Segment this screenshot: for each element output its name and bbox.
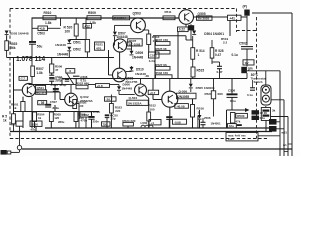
- svg-text:C8 08: C8 08: [260, 111, 268, 115]
- svg-text:R524: R524: [205, 92, 212, 96]
- svg-text:47: 47: [55, 68, 59, 72]
- svg-text:0.22: 0.22: [179, 28, 185, 32]
- svg-text:56k: 56k: [10, 46, 16, 50]
- svg-text:100: 100: [65, 30, 71, 34]
- svg-text:-0.08: -0.08: [174, 120, 181, 124]
- svg-text:1k: 1k: [3, 118, 7, 122]
- svg-text:2N 5322A: 2N 5322A: [128, 101, 142, 105]
- svg-text:D504 1N4001: D504 1N4001: [204, 32, 224, 36]
- svg-text:42u: 42u: [229, 124, 234, 128]
- svg-text:3k: 3k: [272, 109, 276, 113]
- svg-text:750: 750: [103, 122, 108, 126]
- svg-text:1k: 1k: [38, 116, 42, 120]
- svg-text:1N4448: 1N4448: [122, 87, 133, 91]
- svg-text:D502: D502: [73, 48, 81, 52]
- svg-text:47k: 47k: [31, 128, 36, 132]
- svg-text:xxxx: xxxx: [228, 138, 234, 141]
- svg-text:100: 100: [79, 116, 84, 120]
- svg-text:Switch: Switch: [254, 80, 263, 84]
- svg-text:D505 1N4001: D505 1N4001: [196, 86, 215, 90]
- svg-text:2.2: 2.2: [223, 41, 228, 45]
- svg-text:C507: C507: [50, 100, 58, 104]
- svg-text:C505: C505: [51, 83, 59, 87]
- svg-text:(P): (P): [243, 5, 248, 9]
- svg-text:0.1u: 0.1u: [230, 99, 236, 103]
- svg-text:880u: 880u: [53, 106, 60, 110]
- svg-text:C510: C510: [93, 110, 100, 114]
- svg-text:BC-1068: BC-1068: [129, 43, 141, 47]
- svg-text:R515: R515: [197, 69, 205, 73]
- svg-text:2506: 2506: [204, 116, 211, 120]
- svg-text:- 9: - 9: [68, 69, 72, 73]
- svg-text:R510: R510: [44, 11, 52, 15]
- svg-text:0.1u: 0.1u: [80, 76, 86, 80]
- svg-text:R500: R500: [31, 122, 38, 126]
- svg-text:1: 1: [198, 53, 200, 57]
- svg-text:50u: 50u: [37, 45, 43, 49]
- svg-text:D501: D501: [73, 40, 81, 44]
- svg-text:C503: C503: [37, 31, 45, 35]
- svg-text:-7.7: -7.7: [20, 77, 25, 81]
- svg-text:25p: 25p: [111, 117, 116, 121]
- svg-text:0.1u: 0.1u: [260, 116, 266, 120]
- svg-text:D503 1N4448: D503 1N4448: [10, 32, 29, 36]
- svg-text:+41: +41: [230, 16, 236, 20]
- svg-text:1N4448: 1N4448: [132, 55, 143, 59]
- svg-text:4W: 4W: [11, 123, 16, 127]
- svg-text:1k: 1k: [13, 106, 17, 110]
- svg-text:R511: R511: [165, 10, 172, 14]
- svg-text:1N4448: 1N4448: [55, 43, 66, 47]
- svg-text:L500: L500: [141, 121, 148, 125]
- svg-text:-48: -48: [145, 74, 150, 78]
- svg-text:470: 470: [96, 46, 101, 50]
- svg-text:220: 220: [115, 109, 120, 113]
- svg-text:C510 320p: C510 320p: [50, 77, 65, 81]
- svg-text:2N3055: 2N3055: [178, 95, 189, 99]
- svg-text:C502: C502: [239, 42, 247, 46]
- svg-text:100: 100: [150, 107, 155, 111]
- svg-text:+4: +4: [151, 121, 155, 125]
- svg-text:R509: R509: [88, 11, 96, 15]
- svg-text:+0.8: +0.8: [97, 84, 103, 88]
- svg-text:w1: w1: [282, 143, 287, 147]
- svg-text:max: 4mV rms: max: 4mV rms: [228, 133, 246, 137]
- svg-text:1N4448: 1N4448: [57, 53, 68, 57]
- svg-text:R530: R530: [237, 114, 245, 118]
- svg-text:- 36: - 36: [39, 101, 45, 105]
- svg-text:2N5320A: 2N5320A: [114, 16, 128, 20]
- svg-text:-40.08: -40.08: [176, 104, 185, 108]
- svg-text:114: 114: [35, 54, 46, 63]
- svg-text:47k: 47k: [236, 119, 241, 123]
- svg-text:+0.7: +0.7: [149, 91, 155, 95]
- svg-text:1.8k: 1.8k: [37, 71, 43, 75]
- svg-text:0.1u: 0.1u: [247, 93, 253, 97]
- svg-text:100: 100: [79, 104, 84, 108]
- svg-text:3.3n: 3.3n: [149, 59, 155, 63]
- svg-text:1.078: 1.078: [16, 54, 33, 63]
- svg-text:1.8k: 1.8k: [45, 21, 52, 25]
- svg-text:680: 680: [218, 92, 223, 96]
- svg-text:Q-504: Q-504: [129, 96, 138, 100]
- svg-text:280u: 280u: [58, 120, 65, 124]
- svg-text:gm: gm: [248, 66, 253, 70]
- svg-text:0.1u: 0.1u: [232, 53, 238, 57]
- svg-text:+19: +19: [39, 27, 45, 31]
- svg-text:0.47: 0.47: [215, 53, 221, 57]
- svg-text:+12: +12: [84, 24, 90, 28]
- svg-text:Q503: Q503: [133, 12, 141, 16]
- svg-text:250v: 250v: [93, 120, 100, 124]
- svg-text:1N4001: 1N4001: [211, 122, 222, 126]
